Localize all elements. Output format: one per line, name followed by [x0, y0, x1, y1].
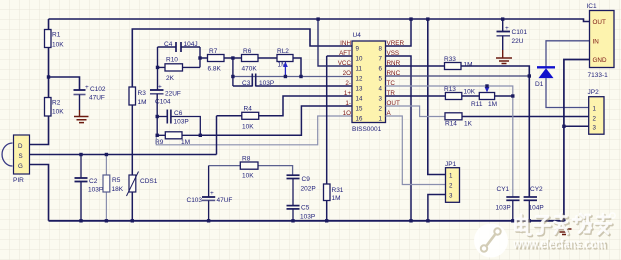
pin names U4 left [338, 40, 352, 117]
svg-text:22U: 22U [512, 38, 524, 45]
connector JP1 [445, 161, 460, 202]
svg-text:47UF: 47UF [217, 197, 233, 204]
svg-text:103P: 103P [300, 214, 315, 221]
svg-text:2K: 2K [166, 75, 175, 82]
resistor R8 [209, 156, 293, 180]
wire OUT jog to R14 [386, 106, 446, 117]
watermark CJK text [516, 214, 613, 236]
svg-text:AFT: AFT [339, 50, 351, 57]
svg-text:CDS1: CDS1 [140, 178, 158, 185]
wires left column (R1/R2/PIR D) [30, 19, 80, 145]
svg-text:www.elecfans.com: www.elecfans.com [513, 236, 606, 251]
pin numbers U4 left [356, 46, 363, 123]
svg-text:+: + [85, 84, 89, 91]
svg-text:INH: INH [340, 40, 351, 47]
resistor R33 [444, 56, 473, 70]
svg-text:7133-1: 7133-1 [588, 72, 609, 79]
wire R7/R6 junction down to 2- row [232, 58, 234, 86]
svg-text:R6: R6 [243, 48, 252, 55]
svg-text:R3: R3 [138, 90, 147, 97]
svg-text:R5: R5 [112, 177, 121, 184]
wire PIR G to ground rail [30, 165, 49, 221]
svg-text:2-: 2- [345, 80, 351, 87]
ground under C102 [74, 95, 89, 123]
svg-text:47UF: 47UF [89, 95, 105, 102]
svg-text:1O: 1O [343, 110, 352, 117]
svg-text:2O: 2O [343, 70, 352, 77]
svg-text:104P: 104P [529, 205, 544, 212]
svg-text:11: 11 [356, 66, 363, 73]
svg-text:RL2: RL2 [277, 48, 289, 55]
capacitor C2 [75, 155, 104, 221]
wire JP1 pin3 to ground rail [428, 195, 446, 221]
svg-text:R10: R10 [166, 57, 178, 64]
svg-text:R13: R13 [444, 86, 456, 93]
wire IN row to D1 [546, 41, 590, 68]
svg-text:R31: R31 [332, 187, 344, 194]
svg-text:6.8K: 6.8K [208, 66, 222, 73]
wire R33 right to CY2 [461, 66, 529, 197]
svg-text:R11: R11 [471, 101, 483, 108]
svg-text:1M: 1M [464, 62, 473, 69]
capacitor C101 [497, 19, 528, 45]
wire 2O row [233, 76, 352, 78]
svg-text:12: 12 [356, 76, 363, 83]
wire TC row to CY1 [386, 86, 513, 197]
svg-text:15: 15 [356, 106, 363, 113]
diode D1 [535, 67, 555, 88]
wire IC1 GND down to rail [564, 60, 590, 222]
resistor R31 [324, 56, 344, 221]
svg-text:1M: 1M [332, 195, 341, 202]
resistor R10 [158, 57, 201, 83]
wire INH loop (R3 top to pin9) [132, 29, 352, 87]
wire VCC into pin11 [318, 19, 352, 66]
svg-text:103P: 103P [174, 119, 189, 126]
capacitor C103 [187, 166, 233, 221]
pin numbers U4 right [379, 46, 383, 123]
svg-text:C103: C103 [187, 197, 203, 204]
resistor R14 [445, 113, 473, 128]
svg-text:1-: 1- [345, 100, 351, 107]
svg-text:CY2: CY2 [530, 186, 543, 193]
wire C4/R10 side verticals [158, 47, 201, 90]
svg-text:G: G [18, 163, 23, 170]
svg-text:C3: C3 [242, 80, 251, 87]
svg-text:+: + [210, 190, 214, 197]
svg-text:JP2: JP2 [588, 89, 600, 96]
wire PIR S row [30, 154, 217, 156]
capacitor C3 [233, 74, 352, 88]
wire 1O feedback (to R9 left) [156, 116, 352, 145]
wire D1 to JP2 pin1 [546, 78, 589, 107]
capacitor C104 22UF [150, 84, 181, 136]
svg-text:IN: IN [593, 39, 600, 46]
svg-text:GND: GND [593, 57, 607, 64]
watermark logo [474, 224, 508, 258]
svg-text:470K: 470K [242, 66, 258, 73]
wire JP2 pin3 [564, 125, 589, 127]
wire RNC row [386, 75, 530, 77]
svg-text:C9: C9 [302, 176, 311, 183]
op-amp IC U4 BISS0001 [352, 32, 386, 133]
svg-text:OUT: OUT [593, 19, 606, 26]
capacitor C102 [74, 84, 106, 102]
svg-text:9: 9 [356, 46, 360, 53]
svg-text:6: 6 [379, 66, 383, 73]
watermark url text [513, 236, 608, 253]
svg-text:10K: 10K [52, 42, 64, 49]
capacitor CY1 [496, 186, 520, 221]
svg-text:10: 10 [356, 56, 363, 63]
svg-text:1: 1 [379, 116, 383, 123]
svg-text:R4: R4 [244, 106, 253, 113]
svg-text:10K: 10K [242, 173, 254, 180]
svg-text:C6: C6 [174, 110, 183, 117]
svg-text:BISS0001: BISS0001 [352, 126, 382, 133]
svg-text:10K: 10K [464, 89, 476, 96]
svg-text:C102: C102 [90, 86, 106, 93]
PIR sensor connector [2, 135, 29, 184]
svg-text:13: 13 [356, 86, 363, 93]
svg-text:3: 3 [449, 193, 453, 200]
svg-text:1M: 1M [488, 101, 497, 108]
svg-text:C2: C2 [89, 178, 98, 185]
connector JP2 [588, 89, 605, 134]
regulator IC1 7133-1 [587, 3, 615, 79]
resistor R1 [45, 30, 65, 49]
potentiometer RL2 [277, 48, 301, 77]
wire AFT row [327, 55, 352, 57]
svg-text:10K: 10K [52, 109, 64, 116]
svg-text:U4: U4 [353, 32, 362, 39]
svg-text:16: 16 [356, 116, 363, 123]
capacitor CY2 [524, 186, 544, 221]
capacitor C5 [287, 205, 316, 221]
resistor R9 [155, 132, 200, 146]
svg-text:7: 7 [379, 56, 383, 63]
svg-text:C4: C4 [164, 41, 173, 48]
ground under C101 [496, 36, 512, 64]
svg-text:D1: D1 [535, 81, 544, 88]
resistor R3 [129, 87, 147, 106]
wire TR row to R13 [386, 95, 446, 97]
wire pin A to JP1 pin2 [386, 116, 446, 185]
svg-text:+: + [158, 84, 162, 91]
resistor R2 [45, 98, 65, 117]
wire VCC rail down to JP1 pin1 [428, 19, 446, 175]
svg-text:S: S [19, 153, 23, 160]
svg-text:3: 3 [593, 125, 597, 132]
resistor R6 [242, 48, 278, 73]
resistor R13 [444, 86, 476, 100]
svg-text:2: 2 [449, 183, 453, 190]
svg-text:1M: 1M [138, 99, 147, 106]
svg-text:VCC: VCC [338, 60, 352, 67]
svg-text:5: 5 [379, 76, 383, 83]
svg-text:1K: 1K [464, 121, 473, 128]
svg-text:10K: 10K [242, 124, 254, 131]
svg-text:1: 1 [449, 173, 453, 180]
svg-text:3: 3 [379, 96, 383, 103]
watermark registered mark [610, 213, 615, 218]
svg-text:202P: 202P [301, 186, 316, 193]
capacitor C6 [157, 110, 200, 136]
svg-text:R2: R2 [52, 100, 61, 107]
wire R14 to JP2 pin2 [462, 116, 589, 118]
wire 1- feedback (R9 right to pin15) [200, 106, 352, 135]
svg-text:4: 4 [379, 86, 383, 93]
resistor R7 [200, 48, 242, 73]
svg-text:2: 2 [593, 116, 597, 123]
capacitor C4 [158, 41, 201, 52]
wire VSS to ground rail [386, 56, 412, 221]
svg-text:R14: R14 [445, 121, 457, 128]
svg-text:C101: C101 [512, 29, 528, 36]
svg-text:8: 8 [379, 46, 383, 53]
svg-text:103P: 103P [88, 187, 103, 194]
svg-text:14: 14 [356, 96, 363, 103]
svg-text:R7: R7 [209, 48, 218, 55]
pin names U4 right [387, 40, 405, 117]
svg-text:R1: R1 [52, 32, 61, 39]
svg-text:C5: C5 [301, 205, 310, 212]
potentiometer R11 [462, 86, 513, 108]
svg-text:22UF: 22UF [165, 91, 181, 98]
svg-text:103P: 103P [496, 205, 511, 212]
wire VCC top rail [49, 19, 590, 22]
svg-text:PIR: PIR [13, 177, 24, 184]
resistor R4 [217, 96, 353, 155]
svg-text:2: 2 [379, 106, 383, 113]
wire ground bottom rail [49, 220, 564, 222]
svg-text:R8: R8 [242, 156, 251, 163]
svg-text:D: D [18, 143, 23, 150]
svg-text:104J: 104J [184, 41, 198, 48]
svg-text:R33: R33 [444, 56, 456, 63]
wire VRER to VCC rail [386, 19, 412, 46]
svg-text:JP1: JP1 [445, 161, 457, 168]
ground at rail end [557, 221, 572, 235]
capacitor C9 [287, 175, 316, 205]
svg-text:CY1: CY1 [497, 186, 510, 193]
svg-text:IC1: IC1 [587, 3, 598, 10]
wire RNR row to R33 [386, 65, 445, 67]
svg-text:103P: 103P [259, 80, 274, 87]
svg-text:18K: 18K [112, 186, 124, 193]
svg-text:1+: 1+ [344, 90, 352, 97]
resistor R5 [103, 155, 124, 221]
svg-text:1: 1 [593, 106, 597, 113]
photoresistor CDS1 [127, 105, 158, 221]
svg-text:+: + [505, 25, 509, 32]
